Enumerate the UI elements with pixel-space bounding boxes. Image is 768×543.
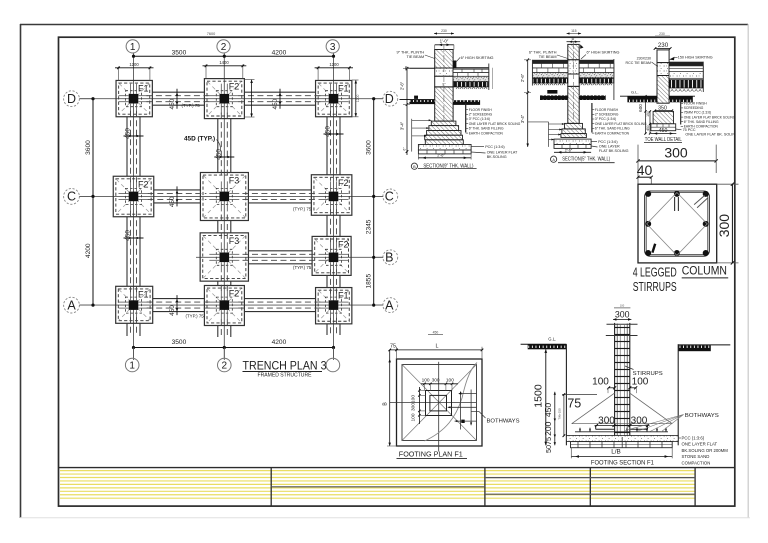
svg-text:3: 3 bbox=[330, 42, 336, 53]
column ladder bbox=[614, 323, 616, 437]
dim 1200 above F1-D1 bbox=[115, 62, 154, 80]
svg-text:2′-6″: 2′-6″ bbox=[520, 73, 525, 82]
drawing frame bbox=[59, 37, 735, 506]
svg-text:1855: 1855 bbox=[365, 274, 372, 289]
footing F2 at C3 bbox=[311, 175, 352, 216]
svg-text:STIRRUPS: STIRRUPS bbox=[633, 371, 664, 377]
grid line 1 bbox=[133, 54, 135, 360]
svg-text:ONE LAYER FLAT: ONE LAYER FLAT bbox=[682, 442, 718, 447]
dim 450 3:D-C bbox=[324, 126, 344, 137]
svg-text:F1: F1 bbox=[338, 291, 349, 301]
svg-text:5″: 5″ bbox=[572, 36, 576, 41]
excavation pit bbox=[565, 344, 567, 445]
svg-text:G.L.: G.L. bbox=[548, 337, 556, 342]
svg-text:150 HIGH SKIRTING: 150 HIGH SKIRTING bbox=[678, 56, 713, 60]
footing F3 at B2 bbox=[200, 233, 248, 281]
svg-text:6″ HIGH SKIRTING: 6″ HIGH SKIRTING bbox=[587, 51, 620, 55]
dim 450 1:D-C bbox=[124, 128, 144, 139]
dim 450 A1-A2 bbox=[169, 295, 179, 316]
svg-text:230: 230 bbox=[658, 42, 669, 49]
svg-text:3′-4″: 3′-4″ bbox=[400, 121, 405, 130]
svg-text:6″ THK. PLINTH: 6″ THK. PLINTH bbox=[529, 51, 557, 55]
svg-text:2′-6″: 2′-6″ bbox=[437, 154, 445, 158]
svg-text:450: 450 bbox=[125, 230, 132, 241]
svg-text:450: 450 bbox=[169, 98, 176, 109]
svg-text:4200: 4200 bbox=[272, 339, 287, 346]
svg-text:1: 1 bbox=[129, 361, 135, 372]
svg-text:1′-0″: 1′-0″ bbox=[440, 39, 449, 44]
svg-text:FLOOR FINISH: FLOOR FINISH bbox=[469, 108, 493, 112]
svg-text:450: 450 bbox=[433, 330, 439, 334]
grid line D bbox=[79, 98, 383, 100]
svg-text:F3: F3 bbox=[229, 236, 240, 246]
footing F2 at D2 bbox=[204, 79, 244, 119]
svg-text:3600: 3600 bbox=[365, 140, 372, 155]
svg-text:100: 100 bbox=[620, 304, 625, 308]
svg-text:BOTHWAYS: BOTHWAYS bbox=[487, 418, 520, 424]
svg-text:300: 300 bbox=[615, 310, 630, 320]
diamond bars bbox=[647, 193, 708, 256]
svg-text:F1: F1 bbox=[338, 83, 349, 93]
svg-text:150: 150 bbox=[646, 111, 650, 117]
svg-text:230X230: 230X230 bbox=[637, 56, 651, 60]
svg-text:600: 600 bbox=[638, 104, 643, 112]
svg-text:2″ SCREEDING: 2″ SCREEDING bbox=[469, 113, 493, 117]
svg-text:2: 2 bbox=[221, 42, 227, 53]
svg-text:EARTH COMPACTION: EARTH COMPACTION bbox=[469, 131, 504, 135]
trench 3:B-A bbox=[327, 269, 340, 293]
svg-text:1200: 1200 bbox=[329, 62, 339, 67]
svg-text:A: A bbox=[385, 298, 394, 312]
trench A2-A3 bbox=[238, 299, 321, 312]
svg-text:FRAMED STRUCTURE: FRAMED STRUCTURE bbox=[258, 373, 312, 379]
svg-text:C: C bbox=[67, 190, 76, 204]
svg-text:45D (TYP.): 45D (TYP.) bbox=[184, 136, 215, 143]
dim 450 D2-D3 bbox=[272, 89, 282, 110]
svg-text:(TYP.) 75: (TYP.) 75 bbox=[186, 314, 205, 319]
footing F1 at D3 bbox=[316, 80, 352, 116]
svg-text:75: 75 bbox=[390, 343, 396, 349]
svg-text:1200: 1200 bbox=[129, 62, 139, 67]
left dim line 3600/4200 bbox=[85, 97, 94, 307]
footing section notes bbox=[678, 437, 681, 439]
svg-text:300: 300 bbox=[432, 377, 440, 383]
svg-text:TOE WALL DETAIL: TOE WALL DETAIL bbox=[645, 137, 682, 143]
svg-text:3″ PCC (1:3:6): 3″ PCC (1:3:6) bbox=[469, 117, 490, 121]
trench 3:D-C bbox=[327, 111, 340, 181]
svg-text:450: 450 bbox=[215, 149, 222, 160]
title block yellow ruling bbox=[60, 470, 695, 472]
footing F1 at D1 bbox=[116, 80, 152, 116]
column stirrup detail bbox=[633, 145, 739, 295]
trench 1:A stub bbox=[127, 317, 140, 336]
svg-text:2: 2 bbox=[222, 361, 228, 372]
svg-text:230: 230 bbox=[659, 32, 665, 36]
svg-text:ONE LAYER: ONE LAYER bbox=[599, 144, 620, 148]
rebar bars lower right bbox=[459, 393, 477, 395]
title TRENCH PLAN 3 bbox=[243, 358, 327, 378]
trench 1:D-C bbox=[127, 111, 140, 183]
svg-text:450: 450 bbox=[169, 196, 176, 207]
footing F1 at A1 bbox=[116, 286, 153, 323]
svg-text:TW+150: TW+150 bbox=[557, 408, 561, 420]
svg-text:PCC (1:3:6): PCC (1:3:6) bbox=[682, 435, 705, 440]
svg-text:100: 100 bbox=[411, 395, 417, 403]
svg-text:PCC (1:3:6): PCC (1:3:6) bbox=[485, 145, 504, 149]
svg-text:D: D bbox=[385, 92, 394, 106]
svg-text:5075: 5075 bbox=[544, 437, 553, 453]
svg-text:L/B: L/B bbox=[611, 449, 621, 456]
footing haunch slopes bbox=[572, 393, 615, 424]
svg-text:100: 100 bbox=[632, 377, 649, 388]
section A 5in wall detail bbox=[520, 29, 647, 163]
trench C2-C3 bbox=[242, 190, 317, 203]
dim 450 D1-D2 bbox=[169, 89, 179, 110]
grid bubble 2 top bbox=[217, 40, 230, 56]
svg-text:1200: 1200 bbox=[356, 95, 360, 103]
svg-text:B: B bbox=[413, 165, 416, 169]
svg-text:4200: 4200 bbox=[272, 50, 287, 57]
svg-text:100: 100 bbox=[592, 377, 609, 388]
trench 2:B-A bbox=[218, 275, 231, 291]
footing plan top dims bbox=[396, 347, 398, 359]
grid bubble 3 bottom bbox=[326, 358, 340, 372]
dim 1400 above F2-D2 bbox=[203, 60, 247, 78]
svg-text:F2: F2 bbox=[138, 179, 149, 189]
svg-text:RCC TIE BEAM: RCC TIE BEAM bbox=[626, 61, 652, 65]
trench 2:C-B bbox=[218, 215, 231, 239]
trench D1-D2 bbox=[146, 92, 210, 105]
svg-text:F1: F1 bbox=[138, 289, 149, 299]
svg-text:A: A bbox=[67, 298, 76, 312]
svg-text:115: 115 bbox=[571, 29, 577, 33]
svg-text:75: 75 bbox=[567, 397, 581, 411]
grid bubble 1 top bbox=[126, 40, 139, 56]
bothways label (plan) bbox=[472, 411, 480, 413]
bottom dim line 3500/4200 bbox=[132, 339, 335, 358]
title block dark dividers bbox=[271, 486, 485, 488]
svg-text:ONE LAYER FLAT BRICK SOLING: ONE LAYER FLAT BRICK SOLING bbox=[684, 115, 736, 119]
svg-text:300: 300 bbox=[716, 214, 732, 238]
svg-text:230: 230 bbox=[441, 29, 447, 33]
grid line C bbox=[79, 195, 383, 197]
svg-text:450: 450 bbox=[543, 403, 553, 418]
footing F2 at A2 bbox=[204, 286, 244, 326]
trench 2:D-C bbox=[218, 113, 231, 179]
trench 3:A stub bbox=[327, 318, 340, 335]
stirrup square bbox=[638, 184, 717, 263]
stirrup tie bbox=[645, 191, 710, 256]
right dim 300 bbox=[717, 183, 739, 185]
toe wall detail bbox=[620, 32, 736, 143]
trench C1-C2 bbox=[148, 190, 207, 203]
svg-text:6″ HIGH SKIRTING: 6″ HIGH SKIRTING bbox=[461, 56, 494, 60]
svg-text:SECTION(5″ THK. WALL): SECTION(5″ THK. WALL) bbox=[562, 157, 610, 163]
grid line 3 bbox=[333, 54, 335, 360]
svg-text:F1: F1 bbox=[138, 83, 149, 93]
footing plan column squares bbox=[426, 391, 452, 416]
svg-text:6″ THK. SAND FILLING: 6″ THK. SAND FILLING bbox=[469, 127, 504, 131]
svg-text:75 PCC: 75 PCC bbox=[683, 128, 696, 132]
svg-text:ONE LAYER FLAT BRICK SOLING: ONE LAYER FLAT BRICK SOLING bbox=[469, 122, 521, 126]
svg-text:FOOTING SECTION F1: FOOTING SECTION F1 bbox=[591, 459, 654, 466]
svg-text:2345: 2345 bbox=[365, 219, 372, 234]
footing section F1 bbox=[521, 304, 731, 467]
svg-text:75MM PCC (1:3:6): 75MM PCC (1:3:6) bbox=[684, 111, 711, 115]
footing F2 at B3 bbox=[312, 236, 351, 275]
svg-text:COLUMN: COLUMN bbox=[682, 265, 727, 277]
svg-text:TIE BEAM: TIE BEAM bbox=[539, 55, 557, 59]
dim 450 1:C-A bbox=[124, 230, 144, 241]
stirrups label bbox=[625, 366, 634, 370]
svg-text:2′-6″: 2′-6″ bbox=[400, 81, 405, 90]
dim 450 2:D-C bbox=[214, 149, 234, 160]
svg-text:4200: 4200 bbox=[85, 243, 92, 258]
svg-text:450: 450 bbox=[325, 126, 332, 137]
svg-text:(TYP.) 75: (TYP.) 75 bbox=[182, 103, 201, 108]
rebar dots bbox=[645, 191, 651, 197]
svg-text:450: 450 bbox=[169, 305, 176, 316]
svg-text:6″ THK. SAND FILLING: 6″ THK. SAND FILLING bbox=[595, 127, 630, 131]
svg-text:ONE LAYER FLAT BK. SOLIN: ONE LAYER FLAT BK. SOLIN bbox=[685, 133, 735, 137]
svg-text:ONE LAYER FLAT BRICK SOLING: ONE LAYER FLAT BRICK SOLING bbox=[595, 122, 647, 126]
svg-text:B: B bbox=[385, 251, 393, 265]
svg-text:C: C bbox=[385, 190, 394, 204]
vertical dim right of F1-D3 bbox=[352, 80, 360, 117]
footing F3 at C2 bbox=[200, 173, 248, 221]
svg-text:7600: 7600 bbox=[207, 32, 215, 36]
grid line B bbox=[196, 256, 383, 258]
svg-text:300: 300 bbox=[411, 403, 417, 411]
svg-text:EARTH COMPACTION: EARTH COMPACTION bbox=[595, 131, 630, 135]
paper outer border bbox=[20, 24, 748, 26]
svg-text:300: 300 bbox=[664, 145, 688, 161]
svg-text:450: 450 bbox=[659, 128, 668, 134]
svg-text:1: 1 bbox=[130, 42, 136, 53]
svg-text:3600: 3600 bbox=[85, 140, 92, 155]
svg-text:2″ SCREEDING: 2″ SCREEDING bbox=[595, 113, 619, 117]
svg-text:450: 450 bbox=[272, 98, 279, 109]
svg-text:PCC (1:3:6): PCC (1:3:6) bbox=[598, 140, 617, 144]
top dim line 3500/4200 bbox=[132, 50, 335, 58]
svg-text:BOTHWAYS: BOTHWAYS bbox=[685, 413, 719, 419]
trench 2:A stub bbox=[218, 320, 231, 338]
svg-text:ONE LAYER FLAT: ONE LAYER FLAT bbox=[487, 150, 518, 154]
svg-text:F2: F2 bbox=[338, 178, 349, 188]
dim 450 C1-C2 bbox=[169, 186, 179, 207]
pcc layer bbox=[566, 436, 678, 442]
svg-text:200: 200 bbox=[543, 421, 553, 436]
svg-text:9″ THK. PLINTH: 9″ THK. PLINTH bbox=[397, 51, 425, 55]
grid bubble 3 top bbox=[326, 40, 339, 56]
grid bubble B right bbox=[374, 250, 398, 265]
brick soling layer bbox=[571, 442, 673, 448]
grid bubble C right bbox=[374, 189, 398, 204]
trench 3:C-B bbox=[327, 209, 340, 242]
svg-text:D: D bbox=[67, 92, 76, 106]
footing F2 at C1 bbox=[113, 176, 154, 217]
svg-text:3′-4″: 3′-4″ bbox=[520, 114, 525, 123]
svg-text:100: 100 bbox=[411, 413, 417, 421]
svg-text:3500: 3500 bbox=[172, 50, 187, 57]
footing F1 at A3 bbox=[316, 288, 352, 324]
svg-text:F2: F2 bbox=[229, 82, 240, 92]
svg-text:STIRRUPS: STIRRUPS bbox=[633, 279, 677, 294]
svg-text:SCREEDING: SCREEDING bbox=[684, 106, 704, 110]
svg-text:FLOOR FINISH: FLOOR FINISH bbox=[684, 102, 708, 106]
stirrup hooks bbox=[694, 195, 705, 204]
footing rebar mat bbox=[575, 431, 668, 433]
svg-text:F2: F2 bbox=[338, 239, 349, 249]
trench D2-D3 bbox=[238, 92, 321, 105]
grid bubble 1 bottom bbox=[125, 358, 139, 372]
grid bubble A right bbox=[374, 298, 398, 313]
footing plan left dim bbox=[389, 350, 391, 446]
column stub lines bbox=[607, 323, 638, 325]
column legs bbox=[674, 197, 676, 211]
vertical dim right of F2-D2 bbox=[244, 80, 254, 118]
svg-text:TIE BEAM: TIE BEAM bbox=[406, 55, 424, 59]
svg-text:TRENCH PLAN 3: TRENCH PLAN 3 bbox=[243, 358, 327, 372]
svg-text:450: 450 bbox=[125, 128, 132, 139]
svg-text:3500: 3500 bbox=[172, 339, 187, 346]
grid bubble A left bbox=[64, 297, 93, 313]
grid bubble D right bbox=[374, 91, 398, 106]
footing plan center lines bbox=[438, 362, 440, 452]
title block bbox=[59, 467, 735, 469]
svg-text:L: L bbox=[436, 343, 439, 349]
svg-text:F2: F2 bbox=[229, 289, 240, 299]
svg-text:STONE SAND: STONE SAND bbox=[682, 454, 710, 459]
svg-text:40: 40 bbox=[637, 162, 653, 178]
svg-text:1400: 1400 bbox=[219, 60, 229, 65]
section B 9in wall detail bbox=[397, 29, 521, 170]
svg-text:BK.SOLING OR 200MM: BK.SOLING OR 200MM bbox=[682, 448, 729, 453]
svg-text:6″ THK. SAND FILLING: 6″ THK. SAND FILLING bbox=[684, 120, 719, 124]
svg-text:(TYP.) 75: (TYP.) 75 bbox=[293, 265, 312, 270]
svg-text:2′-6″: 2′-6″ bbox=[565, 148, 573, 152]
grid line A bbox=[79, 304, 383, 306]
svg-text:(TYP.) 75: (TYP.) 75 bbox=[293, 207, 312, 212]
grid bubble D left bbox=[64, 91, 93, 107]
svg-text:450: 450 bbox=[646, 125, 650, 131]
svg-text:100: 100 bbox=[422, 377, 430, 383]
svg-text:FLOOR FINISH: FLOOR FINISH bbox=[595, 108, 619, 112]
label 45D TYP leader bbox=[217, 140, 221, 152]
right dim line 3600/2345/1855 bbox=[365, 97, 375, 307]
trench A1-A2 bbox=[147, 299, 211, 312]
svg-text:G.L.: G.L. bbox=[631, 89, 639, 94]
svg-text:F3: F3 bbox=[229, 176, 240, 186]
grid line 2 bbox=[223, 54, 225, 360]
svg-text:BK.SOLING: BK.SOLING bbox=[487, 155, 507, 159]
svg-text:COMPACTION: COMPACTION bbox=[682, 461, 711, 466]
trench B2-B3 bbox=[243, 251, 319, 264]
svg-text:3″ PCC (1:3:6): 3″ PCC (1:3:6) bbox=[595, 117, 616, 121]
svg-text:FOOTING PLAN F1: FOOTING PLAN F1 bbox=[399, 449, 463, 458]
grid bubble C left bbox=[64, 189, 93, 205]
left dim 1500 bbox=[545, 349, 547, 445]
svg-text:300: 300 bbox=[598, 416, 615, 427]
break curve bbox=[425, 363, 478, 442]
svg-text:4 LEGGED: 4 LEGGED bbox=[633, 264, 677, 279]
svg-text:FLAT BK.SOLING: FLAT BK.SOLING bbox=[599, 149, 629, 153]
footing plan diagonals bbox=[402, 365, 477, 441]
footing plan F1 bbox=[382, 330, 519, 458]
grid bubble 2 bottom bbox=[218, 358, 232, 372]
trench 1:C-A bbox=[127, 211, 140, 292]
dim 1200 above F1-D3 bbox=[315, 62, 353, 80]
left dims 450 200 50 75 bbox=[554, 392, 556, 446]
